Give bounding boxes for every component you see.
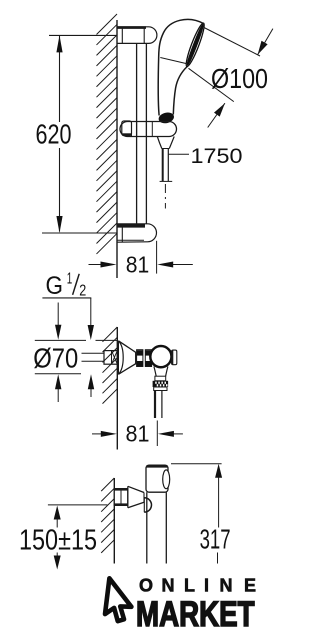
svg-text:N: N bbox=[162, 576, 175, 596]
svg-text:N: N bbox=[220, 576, 233, 596]
svg-text:620: 620 bbox=[36, 119, 72, 150]
svg-text:G: G bbox=[46, 272, 64, 300]
svg-text:1750: 1750 bbox=[191, 145, 243, 168]
svg-text:2: 2 bbox=[79, 282, 86, 299]
svg-text:1: 1 bbox=[67, 270, 73, 287]
svg-text:MARKET: MARKET bbox=[136, 594, 255, 634]
svg-text:317: 317 bbox=[200, 523, 231, 554]
svg-text:E: E bbox=[244, 576, 256, 596]
svg-text:Ø100: Ø100 bbox=[211, 63, 268, 94]
svg-text:O: O bbox=[139, 576, 153, 596]
svg-text:I: I bbox=[204, 576, 209, 596]
svg-text:150±15: 150±15 bbox=[19, 524, 97, 556]
svg-text:81: 81 bbox=[126, 421, 150, 447]
svg-text:L: L bbox=[184, 576, 195, 596]
svg-text:Ø70: Ø70 bbox=[33, 342, 78, 373]
svg-text:81: 81 bbox=[126, 252, 150, 278]
